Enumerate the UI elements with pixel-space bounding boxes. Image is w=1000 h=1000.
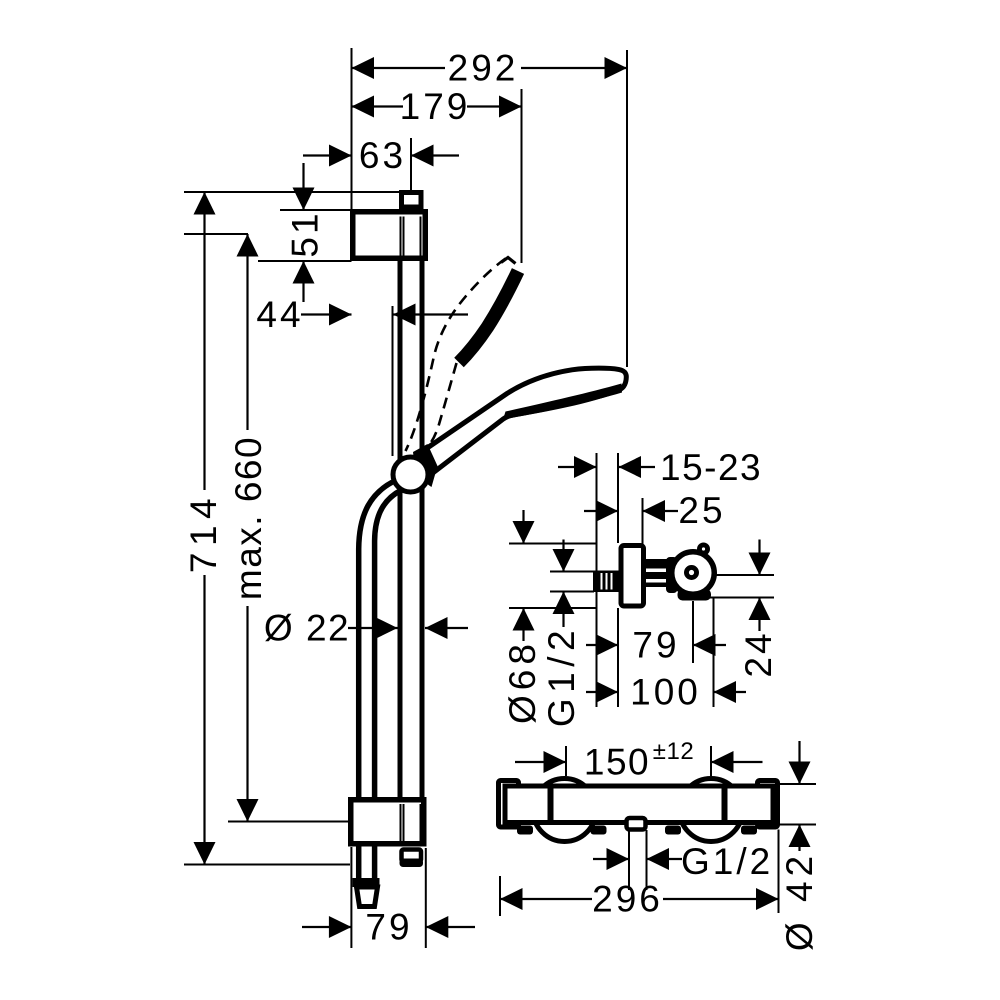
extension line wall plane (596, 453, 598, 707)
pivot connector blob (413, 444, 438, 487)
hose collar (353, 878, 380, 887)
rail right line (420, 261, 425, 797)
bottom bracket (351, 800, 424, 844)
svg-text:Ø 42: Ø 42 (779, 851, 820, 951)
svg-text:G1/2: G1/2 (681, 841, 773, 882)
dimension G1/2 part (562, 540, 564, 572)
dimension 100 (586, 691, 618, 693)
dimension 63 (303, 154, 352, 156)
svg-text:79: 79 (632, 625, 679, 666)
ref line holder center (24) (716, 574, 774, 576)
hand shower spray face band (503, 384, 622, 420)
ref line bottom bracket center (660) (228, 821, 350, 823)
extension line plate front (617, 453, 619, 543)
spigot thread (593, 571, 619, 593)
dashed head tip (501, 258, 516, 264)
wall plate (621, 546, 644, 607)
dimension 24 (758, 540, 760, 576)
svg-text:24: 24 (738, 630, 779, 677)
svg-text:296: 296 (592, 879, 663, 920)
wall bracket (353, 212, 426, 259)
dimension dia 22 (348, 627, 398, 629)
ref line spigot top (G12) (550, 571, 594, 573)
rail edges through bottom bracket (400, 804, 402, 842)
rail left line (398, 261, 403, 797)
ref line spigot bottom (G12) (550, 591, 594, 593)
hose curve left (359, 482, 393, 797)
right cap (758, 781, 778, 828)
rail edges through bracket (400, 217, 402, 257)
left nut flanks (517, 826, 533, 835)
handle boundary right (722, 786, 728, 823)
left cap (499, 781, 519, 828)
svg-text:±12: ±12 (653, 738, 694, 765)
dashed handshower inner outline (429, 363, 457, 446)
extension line 100 right (713, 598, 715, 707)
hose end cone (357, 887, 378, 907)
extension line rail-center (63 right) (410, 138, 412, 190)
dimension dia 42 (778, 783, 817, 785)
svg-text:51: 51 (285, 210, 326, 257)
ref line holder bottom (24) (703, 597, 774, 599)
rail foot (402, 850, 422, 862)
svg-text:25: 25 (678, 490, 725, 531)
dimension 292 (352, 67, 446, 69)
right union nut (680, 779, 743, 842)
svg-text:G1/2: G1/2 (541, 625, 582, 727)
svg-text:179: 179 (400, 86, 471, 127)
right nut flanks (665, 826, 681, 835)
body (505, 786, 773, 823)
holder pin (684, 565, 699, 580)
holder joint (666, 557, 678, 593)
extension line bracket-left (top) (351, 48, 353, 209)
ref line bracket top (51) (280, 209, 352, 211)
ref line bracket bottom (51) (258, 260, 352, 262)
dimension 25 (584, 510, 618, 512)
svg-text:150: 150 (584, 742, 650, 783)
dimension 51 (302, 163, 304, 210)
svg-text:292: 292 (448, 48, 519, 89)
dimension 150 (565, 746, 567, 776)
svg-text:44: 44 (256, 294, 303, 335)
hand shower handle and head outline (425, 368, 626, 474)
extension line 25 right (642, 498, 644, 544)
dimension dia 68 (522, 510, 524, 544)
dimension 79 part (586, 644, 618, 646)
dimension max 660 (246, 234, 248, 430)
svg-text:15-23: 15-23 (660, 447, 762, 488)
dashed position spray face band (459, 271, 518, 363)
shower rail top cap (402, 193, 422, 208)
svg-text:Ø68: Ø68 (502, 639, 543, 724)
dimension 44 (301, 313, 352, 315)
hose below bracket (356, 847, 362, 879)
extension line pivot-left (44) (392, 306, 394, 456)
dimension 714 (203, 192, 205, 490)
svg-text:100: 100 (630, 672, 701, 713)
ref line bracket center (660) (184, 233, 248, 235)
dashed handshower left outline (406, 259, 506, 452)
holder bottom flange (678, 589, 712, 601)
handle boundary left (548, 786, 554, 823)
hose curve right (375, 490, 402, 797)
ref line rail top (714) (184, 191, 400, 193)
outlet (627, 818, 646, 830)
holder arm (646, 559, 668, 587)
holder ring (672, 552, 715, 595)
ref line rail bottom (714) (184, 864, 350, 866)
svg-text:714: 714 (183, 492, 224, 573)
dimension 179 (352, 105, 404, 107)
svg-text:79: 79 (365, 907, 412, 948)
extension line holder center (692, 601, 694, 663)
holder knob (697, 543, 710, 556)
svg-text:max. 660: max. 660 (228, 436, 269, 600)
extension line 292 right (626, 50, 628, 367)
svg-text:63: 63 (359, 135, 406, 176)
dimension 296 (499, 876, 501, 916)
dimension G1/2 bottom (628, 830, 630, 890)
extension line 179 right (521, 89, 523, 263)
ref line plate top (68) (509, 543, 597, 545)
ref line plate bottom (68) (509, 607, 597, 609)
left union nut (533, 779, 596, 842)
svg-text:Ø 22: Ø 22 (264, 608, 350, 649)
dimension 79 bottom (350, 847, 352, 948)
dimension 15-23 (558, 466, 597, 468)
pivot holder circle (393, 457, 428, 492)
